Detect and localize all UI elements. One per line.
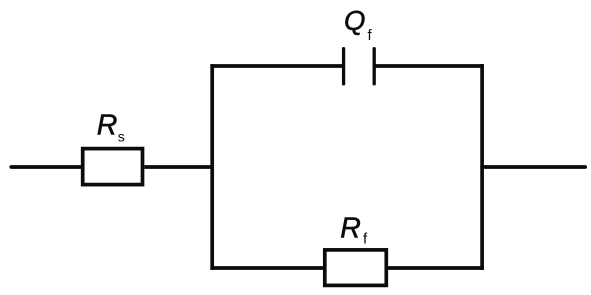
svg-text:R: R bbox=[97, 110, 118, 142]
svg-text:f: f bbox=[363, 231, 368, 248]
wire: bottom branch left (node A to Rf) bbox=[210, 266, 324, 270]
wire: Rs to node A bbox=[144, 165, 214, 169]
capacitor Qf left plate bbox=[342, 49, 345, 84]
label Rs bbox=[97, 110, 125, 145]
resistor Rf body bbox=[325, 250, 387, 286]
label Qf bbox=[344, 5, 373, 44]
svg-text:f: f bbox=[368, 27, 373, 44]
wire: node A vertical (left branch riser) bbox=[210, 64, 214, 270]
wire: bottom branch right (Rf to node B) bbox=[388, 266, 484, 270]
wire: node B vertical (right branch riser) bbox=[480, 64, 484, 270]
capacitor Qf right plate bbox=[373, 49, 376, 84]
wire: top branch left (node A to Qf left plate) bbox=[210, 64, 343, 68]
label Rf bbox=[340, 212, 368, 247]
svg-text:R: R bbox=[340, 212, 361, 244]
svg-text:Q: Q bbox=[344, 5, 365, 36]
wire: top branch right (Qf right plate to node B) bbox=[374, 64, 484, 68]
wire: input lead to Rs bbox=[11, 165, 82, 169]
svg-text:s: s bbox=[118, 129, 125, 145]
resistor Rs body bbox=[83, 149, 143, 185]
wire: output lead from node B bbox=[482, 165, 585, 169]
